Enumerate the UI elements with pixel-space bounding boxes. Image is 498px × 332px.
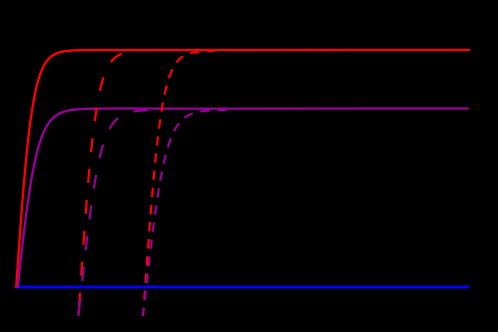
dashed purple curve 2 (more delayed) [143, 110, 227, 316]
dashed red curve 1 (delayed) [78, 52, 133, 316]
bottom tip dash of dashed red curve 1 [77, 311, 80, 316]
bottom tip dash of dashed purple curve 1 [77, 311, 80, 317]
solid red curve (upper asymptote, from origin) [16, 50, 469, 287]
dashed red curve 2 (more delayed) [143, 51, 214, 316]
blue horizontal baseline [15, 286, 470, 289]
dashed purple curve 1 (delayed) [78, 110, 151, 315]
solid purple curve (lower asymptote, from origin) [18, 109, 468, 288]
